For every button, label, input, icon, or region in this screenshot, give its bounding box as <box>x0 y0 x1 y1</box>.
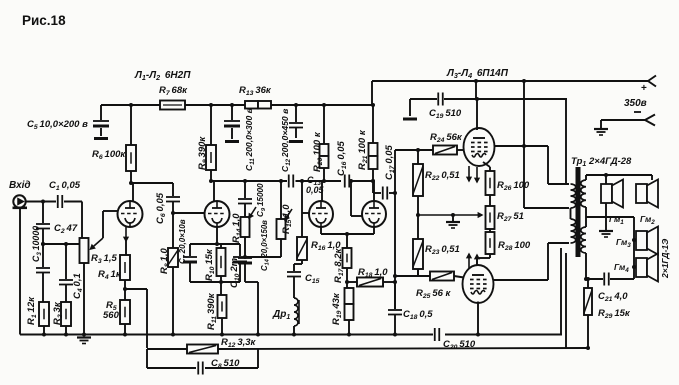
capacitor C15 <box>301 260 303 264</box>
wire grid tube2 <box>171 211 175 215</box>
capacitor C11 200x300V <box>230 103 234 107</box>
svg-text:С1 0,05: С1 0,05 <box>49 180 81 192</box>
capacitor C18 0.5 <box>394 282 396 309</box>
heater arrows lower pentode <box>468 254 470 268</box>
wire speaker group lower <box>633 217 635 279</box>
svg-text:R24 56к: R24 56к <box>430 132 463 144</box>
capacitor C20 510 <box>434 328 436 341</box>
svg-text:R27 51: R27 51 <box>497 211 524 223</box>
cathode lower pentode to bus <box>477 302 479 335</box>
svg-text:R20 100 к: R20 100 к <box>312 131 324 172</box>
wire grid splitter left <box>300 179 304 183</box>
wire R24 to tube grid <box>457 149 464 151</box>
capacitor C19 510 and screen bypass wire <box>410 98 437 100</box>
wire grid bias node y=244 <box>43 243 80 245</box>
svg-text:R16 1,0: R16 1,0 <box>311 240 341 252</box>
wire rail down to R21 <box>371 81 373 105</box>
svg-text:2×1ГД-1Э: 2×1ГД-1Э <box>660 239 670 279</box>
svg-text:R21 100 к: R21 100 к <box>357 129 369 170</box>
speaker GM1 <box>605 175 607 184</box>
wire secondary top lead <box>585 175 587 180</box>
potentiometer R16 1.0 <box>301 213 303 237</box>
potentiometer R18 1.0 <box>347 281 357 283</box>
tube L2 triode 1 <box>321 181 323 201</box>
cathode upper pentode to R26 <box>483 162 490 167</box>
resistor R23 0.51 <box>417 215 419 239</box>
capacitor C3 10000 <box>42 244 44 267</box>
capacitor C9 15000 <box>243 179 247 183</box>
wire cathode network bottom tie <box>190 281 240 283</box>
svg-text:+: + <box>641 83 647 94</box>
speaker GM4 <box>636 258 647 277</box>
svg-text:R22 0,51: R22 0,51 <box>425 170 460 182</box>
svg-text:R12 3,3к: R12 3,3к <box>221 337 257 349</box>
potentiometer R14 1.0 <box>241 217 250 237</box>
ground symbol main bus <box>77 336 91 338</box>
wire transformer drop A <box>560 248 562 335</box>
resistor R24 56k <box>433 146 457 155</box>
capacitor C7 20x10V <box>189 244 191 256</box>
svg-text:R3 1,5: R3 1,5 <box>91 253 117 265</box>
svg-text:R13 36к: R13 36к <box>239 85 272 97</box>
svg-text:2×4ГД-28: 2×4ГД-28 <box>588 156 632 167</box>
wire C8 branch y=368 <box>147 367 196 369</box>
svg-text:R1 12к: R1 12к <box>26 296 38 325</box>
wire secondary mid lead <box>585 207 587 227</box>
capacitor C17 0.05 <box>372 181 374 193</box>
ground minus terminal <box>600 120 602 128</box>
transformer Tr1 core <box>576 167 581 257</box>
svg-text:R10 15к: R10 15к <box>204 248 216 281</box>
resistor R27 51 <box>489 195 491 206</box>
transformer primary winding <box>571 184 576 208</box>
wire jack sleeve down <box>19 209 21 335</box>
wire lower grid feed vertical x=395 <box>394 150 396 309</box>
wiper R3 from grid <box>103 210 117 212</box>
input jack XS1 <box>13 195 25 207</box>
resistor R9 390k <box>209 103 213 107</box>
plate lead upper route <box>524 145 548 147</box>
wire R25 to lower tube grid <box>454 276 464 278</box>
transformer secondary winding <box>581 180 586 207</box>
resistor R22 0.51 <box>413 164 423 196</box>
svg-text:С21 4,0: С21 4,0 <box>598 291 628 303</box>
wire balance tap y=215 <box>418 214 482 216</box>
svg-text:R17 8,2к: R17 8,2к <box>333 247 345 283</box>
svg-text:R11 390к: R11 390к <box>206 292 218 330</box>
wire cathode tie y=244 <box>190 243 240 245</box>
wire feedback bus y=349 <box>147 348 187 350</box>
resistor R17 8.2k <box>346 234 348 248</box>
svg-text:R7 68к: R7 68к <box>159 85 188 97</box>
resistor R10 15k <box>220 244 222 248</box>
svg-text:С20 510: С20 510 <box>443 339 476 351</box>
node A junction C2 <box>41 200 45 204</box>
plate lead upper pentode <box>476 99 478 130</box>
screen lead upper pentode <box>494 145 524 147</box>
svg-text:R9 390к: R9 390к <box>197 136 209 170</box>
wire feedback loop verticals <box>146 349 148 368</box>
potentiometer R3 1.5 <box>81 202 83 239</box>
potentiometer R15 1.0 <box>279 179 283 183</box>
svg-text:С2 47: С2 47 <box>54 223 78 235</box>
wire R3 bottom to bus <box>83 263 85 335</box>
speaker GM3 <box>636 231 647 250</box>
capacitor C13 0.05 <box>288 175 290 188</box>
resistor R19 43k <box>346 282 348 288</box>
svg-text:R2 3к: R2 3к <box>52 301 64 325</box>
svg-text:R29 15к: R29 15к <box>598 308 631 320</box>
svg-text:R23 0,51: R23 0,51 <box>425 244 460 256</box>
wire R18 to grid line <box>383 281 395 283</box>
wire lower grid y=276 <box>395 275 430 277</box>
wire feedback to cathode <box>125 288 147 290</box>
svg-text:С18 0,5: С18 0,5 <box>403 309 433 321</box>
speaker GM2 <box>651 175 653 180</box>
wire grid splitter right <box>349 179 353 183</box>
capacitor C5 100x200V electrolytic <box>100 105 102 120</box>
capacitor C12 200x450V <box>294 103 298 107</box>
svg-text:R25 56 к: R25 56 к <box>416 288 452 300</box>
wire B+ rail output y=81 <box>372 80 648 82</box>
wire ground bus y=334.5 <box>20 334 433 336</box>
node cathode1 junction <box>123 287 127 291</box>
svg-text:С16 0,05: С16 0,05 <box>336 140 348 176</box>
svg-text:С6 0,05: С6 0,05 <box>155 192 167 224</box>
node plate1 junction <box>129 181 133 185</box>
capacitor C4 0.1 <box>65 244 67 279</box>
resistor R2 3k <box>61 302 71 326</box>
svg-text:Рис.18: Рис.18 <box>22 13 66 28</box>
svg-text:R18 1,0: R18 1,0 <box>358 267 388 279</box>
capacitor C2 47 <box>42 202 44 224</box>
wire rail to C19 riser <box>474 79 478 83</box>
wire plate bus y=181 <box>211 180 287 182</box>
svg-text:R14 1,0: R14 1,0 <box>231 213 243 243</box>
svg-text:R19 43к: R19 43к <box>331 292 343 325</box>
resistor R28 100 <box>489 229 491 232</box>
cathode wires splitter <box>320 227 322 234</box>
svg-text:560: 560 <box>103 310 120 321</box>
wire upper grid y=150 <box>395 149 433 151</box>
potentiometer R12 3.3k <box>187 345 218 354</box>
svg-text:R26 100: R26 100 <box>497 180 530 192</box>
resistor R5 560 <box>124 289 126 300</box>
svg-text:R4 1к: R4 1к <box>98 269 122 281</box>
capacitor C16 0.05 <box>344 175 346 188</box>
svg-text:R6 100к: R6 100к <box>92 149 126 161</box>
wire B+ vertical x=524 <box>522 79 526 83</box>
ground speaker GM1 <box>605 203 607 231</box>
junction dots <box>41 242 45 246</box>
cathode tube2 <box>216 227 218 244</box>
tube L1 triode 2 <box>213 181 215 201</box>
resistor R13 36k <box>245 101 258 109</box>
wire secondary bottom lead <box>585 253 587 279</box>
connector minus <box>601 119 645 121</box>
capacitor C14 20x150V <box>238 257 252 259</box>
svg-text:R15 1,0: R15 1,0 <box>281 204 293 234</box>
svg-text:R28 100: R28 100 <box>498 240 531 252</box>
resistor R4 1k <box>120 255 130 280</box>
resistor R6 100k <box>129 103 133 107</box>
resistor R26 100 <box>486 171 495 195</box>
capacitor C8 510 <box>197 362 199 375</box>
wire jack to C1 <box>26 201 56 203</box>
resistor R20 100k <box>322 103 326 107</box>
resistor R1 12k <box>39 302 49 326</box>
resistor R11 390k <box>220 282 222 295</box>
tube L2 triode 2 <box>373 181 375 201</box>
choke Dr1 <box>294 298 298 326</box>
svg-text:С19 510: С19 510 <box>429 108 462 120</box>
ground symbol balance <box>452 215 454 222</box>
wire transformer drop B <box>565 253 567 348</box>
svg-text:С8 510: С8 510 <box>211 358 240 370</box>
potentiometer R8 1.0 <box>172 213 174 248</box>
wire B+ rail stage1 y=105 <box>101 104 373 106</box>
svg-text:350в: 350в <box>624 98 647 109</box>
svg-text:R8 1,0: R8 1,0 <box>159 248 171 274</box>
connector +350V <box>648 76 656 82</box>
wire center tap riser x=566 <box>565 99 567 184</box>
svg-text:С4 0,1: С4 0,1 <box>72 273 84 299</box>
heater arrows upper pentode <box>468 166 470 181</box>
plate lead lower pentode <box>493 279 548 281</box>
capacitor C10 2t <box>239 244 241 256</box>
resistor R25 56k <box>430 272 454 281</box>
potentiometer R29 15k <box>586 277 590 281</box>
capacitor C6 0.05 <box>131 182 173 184</box>
resistor R21 100k <box>372 105 374 143</box>
resistor R7 68k <box>160 101 185 110</box>
cathode tube1 to R4 <box>125 227 127 241</box>
capacitor C21 4.0 <box>586 278 603 280</box>
tube L3 pentode upper <box>464 128 495 166</box>
tube L1 triode 1 <box>132 183 134 201</box>
svg-text:Вхід: Вхід <box>9 180 31 191</box>
capacitor C1 0.05 <box>57 195 59 208</box>
tube L4 pentode lower <box>463 265 494 303</box>
wire R28 to lower pentode <box>489 254 491 258</box>
